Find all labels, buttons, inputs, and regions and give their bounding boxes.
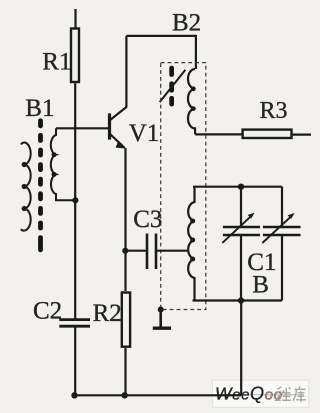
svg-text:R2: R2 xyxy=(93,300,122,327)
svg-text:V1: V1 xyxy=(129,120,160,147)
svg-text:B1: B1 xyxy=(25,95,54,122)
bottom rail xyxy=(75,394,242,396)
wire to B2 primary xyxy=(195,35,197,69)
wire collector up xyxy=(125,36,127,108)
B2 adjustable core arrow xyxy=(160,70,186,102)
transistor V1 xyxy=(108,113,111,139)
wire R1 bottom down left rail xyxy=(74,83,76,319)
node tank bottom xyxy=(238,297,244,303)
resistor R1 xyxy=(71,29,79,83)
resistor R3 xyxy=(243,130,292,138)
wire supply to R1 xyxy=(74,9,76,28)
wire B2 to R3 xyxy=(195,133,243,135)
capacitor C2 xyxy=(59,318,90,321)
variable capacitor C1a xyxy=(240,187,242,227)
transformer B1 left winding xyxy=(21,142,31,230)
wire emitter down to R2 xyxy=(124,148,126,291)
ground xyxy=(158,307,164,313)
wire collector top xyxy=(126,35,195,37)
svg-text:WeeQoo: WeeQoo xyxy=(215,384,283,404)
node rail left xyxy=(71,392,77,398)
node rail R2 xyxy=(122,392,128,398)
transformer B2 core xyxy=(169,66,174,107)
node emitter-C3 xyxy=(122,248,128,254)
svg-text:C3: C3 xyxy=(133,206,162,233)
watermark strikethrough xyxy=(215,394,304,396)
transformer B2 primary winding xyxy=(188,69,195,134)
oscillator coil B xyxy=(188,187,194,301)
wire R2 to rail xyxy=(124,348,126,395)
tank top rail xyxy=(193,186,282,188)
svg-text:R1: R1 xyxy=(42,49,71,76)
transformer B1 right winding xyxy=(51,128,76,200)
shield box dashed xyxy=(161,63,206,310)
transformer B1 core xyxy=(38,118,43,252)
variable capacitor C1b xyxy=(281,187,283,227)
watermark char 维 xyxy=(276,387,291,402)
svg-text:C2: C2 xyxy=(33,298,62,325)
tank bottom rail xyxy=(193,299,283,301)
capacitor C3 xyxy=(125,250,147,252)
node tank top xyxy=(238,184,244,190)
wire tank to bottom rail xyxy=(240,301,242,396)
svg-text:B2: B2 xyxy=(172,10,201,37)
resistor R2 xyxy=(122,293,130,347)
wire R3 out xyxy=(292,134,312,136)
watermark char 库 xyxy=(293,386,306,402)
svg-text:R3: R3 xyxy=(260,98,288,124)
node B1 secondary bottom junction xyxy=(72,197,78,203)
svg-text:B: B xyxy=(252,272,269,299)
wire C2 to bottom rail xyxy=(74,328,76,396)
watermark box xyxy=(212,380,308,407)
wire base xyxy=(56,127,109,129)
